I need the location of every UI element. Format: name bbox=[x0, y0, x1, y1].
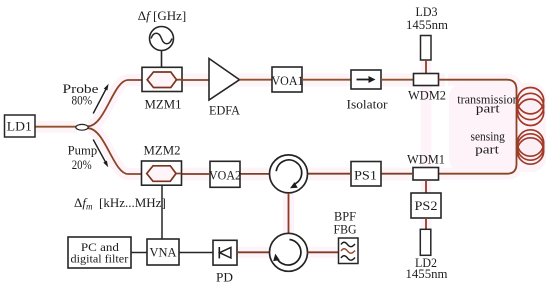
wire Isolator to WDM2 bbox=[381, 79, 414, 81]
svg-text:1455nm: 1455nm bbox=[406, 266, 448, 281]
probe arrow bbox=[93, 84, 108, 114]
label transmission part bbox=[457, 92, 519, 116]
wire VOA2 to MZM2 bbox=[182, 173, 210, 175]
svg-text:20%: 20% bbox=[72, 157, 92, 172]
svg-text:VOA1: VOA1 bbox=[272, 73, 304, 88]
attenuator VOA1 bbox=[272, 67, 304, 92]
wire circulator 2 to BPF bbox=[308, 251, 339, 253]
label Δfm [kHz...MHz] bbox=[74, 195, 166, 212]
svg-text:part: part bbox=[476, 101, 500, 116]
modulator MZM2 bbox=[142, 143, 182, 186]
svg-text:EDFA: EDFA bbox=[209, 103, 241, 118]
wire circulator 1 to VOA2 bbox=[240, 173, 270, 175]
fiber sensing coil to WDM1 bbox=[439, 120, 517, 174]
wire PS2 to LD2 bbox=[425, 218, 427, 229]
isolator bbox=[347, 70, 389, 111]
svg-text:Δfm [kHz...MHz]: Δfm [kHz...MHz] bbox=[74, 195, 166, 212]
wire VNA to PD bbox=[179, 252, 213, 254]
wire VOA1 to Isolator bbox=[302, 79, 351, 81]
wire MZM2 to VNA (RF line) bbox=[161, 185, 163, 239]
attenuator VOA2 bbox=[209, 161, 241, 187]
wire PD to circulator 2 bbox=[237, 251, 270, 253]
wire WDM1 to PS1 bbox=[381, 173, 413, 175]
fiber pump branch (coupler to MZM2) bbox=[88, 128, 142, 174]
fiber WDM2 to transmission coil bbox=[439, 80, 517, 120]
wire PC to VNA bbox=[131, 252, 147, 254]
circulator 2 bbox=[270, 233, 308, 271]
wire MZM1 to EDFA bbox=[182, 79, 210, 81]
svg-text:digital filter: digital filter bbox=[71, 251, 129, 265]
svg-text:part: part bbox=[475, 142, 499, 157]
svg-text:PD: PD bbox=[216, 270, 233, 285]
VNA bbox=[147, 239, 179, 265]
wire LD3 to WDM2 bbox=[425, 60, 427, 74]
background wash (decorative) bbox=[35, 58, 546, 252]
WDM1 bbox=[407, 152, 445, 180]
svg-text:LD1: LD1 bbox=[7, 118, 32, 133]
svg-text:Δf [GHz]: Δf [GHz] bbox=[138, 8, 186, 23]
label Probe 80% bbox=[63, 81, 99, 108]
svg-text:MZM2: MZM2 bbox=[144, 143, 181, 158]
wire WDM1 to PS2 bbox=[425, 180, 427, 193]
laser diode LD3 1455nm bbox=[406, 4, 448, 60]
svg-text:1455nm: 1455nm bbox=[406, 17, 448, 32]
wire PS1 to circulator 1 bbox=[308, 173, 351, 175]
circulator 1 bbox=[270, 155, 308, 193]
modulator MZM1 bbox=[142, 67, 182, 111]
svg-text:VOA2: VOA2 bbox=[209, 167, 241, 182]
svg-text:80%: 80% bbox=[72, 93, 93, 108]
laser diode LD1 bbox=[5, 115, 36, 137]
laser diode LD2 1455nm bbox=[406, 229, 448, 281]
svg-text:PS1: PS1 bbox=[354, 168, 377, 183]
pump arrow bbox=[93, 140, 108, 168]
amplifier EDFA bbox=[209, 59, 241, 118]
svg-text:Isolator: Isolator bbox=[347, 96, 389, 111]
label Pump 20% bbox=[68, 142, 98, 172]
sensing fiber coil bbox=[517, 130, 543, 164]
wire LD1 to coupler bbox=[35, 126, 77, 128]
polarization scrambler PS1 bbox=[351, 162, 381, 187]
fiber probe branch (coupler to MZM1) bbox=[88, 80, 142, 126]
svg-text:VNA: VNA bbox=[150, 244, 178, 259]
transmission fiber coil bbox=[517, 88, 543, 126]
svg-text:Pump: Pump bbox=[68, 142, 98, 157]
RF generator Δf [GHz] bbox=[138, 8, 186, 51]
svg-text:WDM1: WDM1 bbox=[407, 152, 445, 167]
filter BPF FBG bbox=[334, 209, 359, 264]
WDM2 bbox=[408, 74, 446, 103]
wire EDFA to VOA1 bbox=[240, 79, 273, 81]
label sensing part bbox=[471, 129, 506, 157]
svg-text:WDM2: WDM2 bbox=[408, 87, 446, 102]
PS2 bbox=[411, 193, 441, 218]
coupler oval bbox=[76, 124, 88, 130]
svg-text:MZM1: MZM1 bbox=[145, 96, 182, 111]
wire generator to MZM1 bbox=[161, 51, 163, 68]
PC and digital filter bbox=[68, 237, 131, 268]
svg-text:FBG: FBG bbox=[334, 222, 357, 237]
svg-text:PS2: PS2 bbox=[415, 198, 438, 213]
photodiode PD bbox=[213, 240, 237, 284]
wire circulator 1 to circulator 2 bbox=[288, 193, 290, 233]
